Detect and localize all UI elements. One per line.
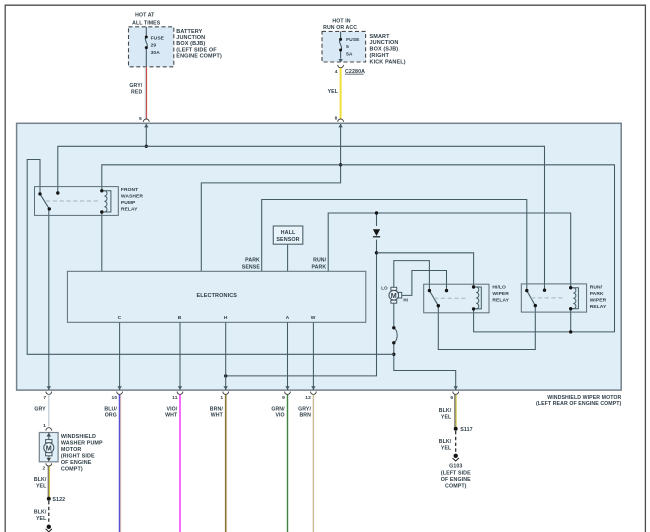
- wire BLU/ORG: [104, 395, 120, 532]
- svg-text:FUSE: FUSE: [346, 37, 360, 43]
- svg-text:A: A: [286, 315, 290, 321]
- svg-text:M: M: [46, 443, 52, 452]
- wire YEL: [328, 68, 341, 119]
- svg-text:YEL: YEL: [328, 89, 339, 95]
- svg-text:BLK/: BLK/: [439, 408, 452, 414]
- node diode bottom junction: [375, 251, 378, 254]
- svg-text:ORG: ORG: [105, 413, 117, 419]
- wire electronics C to pin 10: [119, 322, 121, 390]
- svg-text:VIO: VIO: [275, 413, 284, 419]
- svg-text:C: C: [118, 315, 122, 321]
- node motor common junction: [392, 353, 395, 356]
- svg-text:YEL: YEL: [36, 516, 47, 522]
- svg-text:12: 12: [305, 395, 311, 401]
- svg-text:PARK: PARK: [311, 264, 326, 270]
- wire motor common to pin 6: [394, 303, 456, 390]
- svg-text:RED: RED: [131, 89, 142, 95]
- svg-text:G103: G103: [449, 464, 462, 470]
- connector C2280A pin 4: [335, 59, 365, 75]
- svg-text:RUN/: RUN/: [590, 285, 603, 291]
- wire hall sensor to electronics: [287, 244, 289, 271]
- wire hi/lo relay output to run/park relay output: [438, 306, 535, 350]
- connector pin 5 at wiper motor: [139, 116, 149, 122]
- node YEL junction: [339, 163, 342, 166]
- svg-text:8: 8: [335, 116, 338, 122]
- svg-text:RUN OR ACC: RUN OR ACC: [323, 25, 357, 31]
- wire electronics A to pin 9: [287, 322, 289, 390]
- wire electronics H to pin 1: [225, 322, 227, 390]
- svg-text:FRONT: FRONT: [121, 187, 138, 193]
- svg-text:PARK: PARK: [590, 291, 604, 297]
- wire motor LO brush to hi/lo relay switch: [394, 261, 430, 291]
- svg-text:GRY/: GRY/: [298, 406, 311, 412]
- svg-text:VIO/: VIO/: [167, 406, 178, 412]
- node park switch bottom: [392, 341, 395, 344]
- connector pin 1 at washer pump motor: [43, 423, 52, 430]
- wire GRN/VIO: [271, 395, 287, 532]
- svg-text:(RIGHT SIDE: (RIGHT SIDE: [61, 453, 95, 459]
- connector pin 11 at assembly bottom: [172, 386, 183, 401]
- wire BLK/YEL from washer pump: [34, 466, 50, 498]
- svg-text:HI: HI: [403, 297, 408, 302]
- svg-text:W: W: [311, 315, 316, 321]
- svg-text:GRN/: GRN/: [271, 406, 285, 412]
- svg-text:BLK/: BLK/: [34, 477, 47, 483]
- svg-text:WIPER: WIPER: [590, 298, 607, 304]
- svg-text:1: 1: [43, 423, 46, 429]
- svg-text:BOX (SJB): BOX (SJB): [370, 47, 399, 53]
- ground G103: [441, 454, 471, 490]
- wire washer relay output to pin 7: [48, 209, 50, 390]
- windshield washer pump motor M2: [39, 433, 103, 473]
- wire park sense to run/park relay switch: [262, 200, 527, 291]
- relay: front washer pump relay: [35, 187, 144, 216]
- relay: hi/lo wiper relay: [424, 284, 510, 313]
- wire washer relay common to motor common: [27, 160, 394, 355]
- wire YEL bus to washer relay coil and wiper relay coils: [102, 165, 615, 332]
- svg-text:(LEFT SIDE: (LEFT SIDE: [441, 470, 471, 476]
- svg-text:29: 29: [151, 43, 157, 49]
- svg-text:H: H: [224, 315, 228, 321]
- node B+ junction: [145, 145, 148, 148]
- connector pin 10 at assembly bottom: [112, 386, 123, 401]
- svg-text:HOT AT: HOT AT: [135, 12, 155, 18]
- wire GRY/RED: [129, 67, 146, 119]
- svg-text:S122: S122: [52, 497, 65, 503]
- wire diode junction to hi/lo relay coil: [377, 253, 474, 287]
- svg-text:BATTERY: BATTERY: [176, 29, 202, 35]
- node H terminal junction: [224, 374, 227, 377]
- svg-text:BLU/: BLU/: [104, 406, 117, 412]
- svg-text:WHT: WHT: [211, 413, 224, 419]
- svg-text:PUMP: PUMP: [121, 200, 136, 206]
- svg-text:BRN/: BRN/: [210, 406, 224, 412]
- svg-text:SENSOR: SENSOR: [276, 237, 299, 243]
- svg-text:SMART: SMART: [370, 34, 391, 40]
- node park switch top: [392, 326, 395, 329]
- svg-text:HI/LO: HI/LO: [492, 285, 506, 291]
- wire VIO/WHT: [165, 395, 180, 532]
- connector pin 8 at wiper motor: [335, 116, 344, 122]
- wire from pin 8 to electronics: [201, 124, 340, 271]
- svg-text:SENSE: SENSE: [242, 264, 261, 270]
- svg-text:FUSE: FUSE: [151, 35, 165, 41]
- wire BLK/YEL to ground below S122: [34, 501, 49, 524]
- svg-text:BLK/: BLK/: [34, 510, 47, 516]
- svg-text:4: 4: [335, 69, 338, 75]
- svg-text:7: 7: [43, 395, 46, 401]
- svg-text:ALL TIMES: ALL TIMES: [132, 21, 161, 27]
- svg-text:GRY/: GRY/: [129, 83, 142, 89]
- wiper motor M1: [381, 286, 408, 304]
- svg-text:9: 9: [282, 395, 285, 401]
- connector pin 12 at assembly bottom: [305, 386, 316, 401]
- svg-text:(LEFT SIDE OF: (LEFT SIDE OF: [176, 47, 217, 53]
- svg-text:PARK: PARK: [245, 257, 260, 263]
- svg-text:WASHER: WASHER: [121, 194, 143, 200]
- svg-text:LO: LO: [381, 286, 388, 291]
- svg-text:WHT: WHT: [165, 413, 178, 419]
- svg-text:YEL: YEL: [441, 446, 452, 452]
- svg-text:ELECTRONICS: ELECTRONICS: [197, 293, 238, 299]
- svg-text:WIPER: WIPER: [492, 291, 509, 297]
- svg-text:YEL: YEL: [36, 483, 47, 489]
- ground below S122: [46, 525, 52, 532]
- svg-text:S117: S117: [460, 427, 472, 433]
- electronics module U1: [67, 271, 365, 322]
- svg-text:5: 5: [346, 44, 349, 50]
- connector pin 1 at assembly bottom: [220, 386, 228, 401]
- connector pin 9 at assembly bottom: [282, 386, 290, 401]
- wire diode branch to electronics H terminal: [226, 213, 377, 376]
- svg-text:M: M: [391, 291, 397, 300]
- svg-text:30A: 30A: [151, 50, 161, 56]
- fuse 5 5A: [339, 31, 360, 58]
- svg-text:MOTOR: MOTOR: [61, 447, 81, 453]
- svg-text:(LEFT REAR OF ENGINE COMPT): (LEFT REAR OF ENGINE COMPT): [536, 401, 622, 407]
- node diode top junction: [375, 211, 378, 214]
- wire motor HI brush to hi/lo relay contact: [402, 271, 447, 296]
- svg-text:RELAY: RELAY: [492, 298, 509, 304]
- wire washer relay coil to electronics: [101, 212, 103, 271]
- svg-text:10: 10: [112, 395, 118, 401]
- svg-text:BOX (BJB): BOX (BJB): [176, 41, 205, 47]
- svg-text:RELAY: RELAY: [121, 207, 138, 213]
- wire run/park relay coil to YEL bus: [570, 309, 572, 332]
- splice S117: [454, 427, 473, 433]
- svg-text:RELAY: RELAY: [590, 304, 607, 310]
- svg-text:GRY: GRY: [34, 406, 46, 412]
- splice S122: [47, 497, 65, 503]
- svg-text:BRN: BRN: [299, 413, 311, 419]
- svg-text:1: 1: [220, 395, 223, 401]
- svg-text:HALL: HALL: [281, 230, 296, 236]
- svg-text:WINDSHIELD: WINDSHIELD: [61, 434, 96, 440]
- wire electronics W to pin 12: [312, 322, 314, 390]
- svg-text:OF ENGINE: OF ENGINE: [61, 460, 92, 466]
- svg-text:2: 2: [42, 465, 45, 471]
- wire from pin 5 to B+ bus: [145, 124, 147, 146]
- wire BLK/YEL from pin 6: [439, 395, 456, 429]
- connector pin 6 at assembly bottom: [450, 386, 458, 401]
- svg-text:(RIGHT: (RIGHT: [370, 53, 390, 59]
- connector pin 7 at assembly bottom: [43, 386, 51, 401]
- wire electronics B to pin 11: [179, 322, 181, 390]
- svg-text:6: 6: [450, 395, 453, 401]
- svg-text:KICK PANEL): KICK PANEL): [370, 59, 406, 65]
- connector pin 2 at washer pump motor: [42, 458, 51, 472]
- svg-text:5: 5: [139, 116, 142, 122]
- svg-text:JUNCTION: JUNCTION: [370, 40, 399, 46]
- svg-text:HOT IN: HOT IN: [332, 18, 350, 24]
- wire GRY: [48, 395, 50, 427]
- park switch cam: [394, 328, 397, 343]
- hall sensor: [273, 226, 303, 244]
- svg-text:BLK/: BLK/: [439, 439, 452, 445]
- svg-text:5A: 5A: [346, 51, 353, 57]
- battery junction box (BJB): [129, 12, 222, 67]
- svg-text:RUN/: RUN/: [313, 257, 327, 263]
- wire BLK/YEL to ground G103: [439, 431, 456, 453]
- svg-text:YEL: YEL: [441, 414, 452, 420]
- wire BRN/WHT: [210, 395, 227, 532]
- svg-text:JUNCTION: JUNCTION: [176, 35, 205, 41]
- svg-text:COMPT): COMPT): [445, 484, 467, 490]
- relay: run/park wiper relay: [521, 284, 607, 312]
- diode CR1: [373, 226, 380, 240]
- fuse 29 30A: [145, 27, 165, 67]
- svg-text:B: B: [178, 315, 182, 321]
- svg-text:COMPT): COMPT): [61, 466, 83, 472]
- wire B+ bus to washer relay contact and run/park relay contact: [58, 146, 545, 290]
- wire GRY/BRN: [298, 395, 313, 532]
- svg-text:ENGINE COMPT): ENGINE COMPT): [176, 53, 222, 59]
- windshield wiper motor assembly box: [17, 123, 622, 407]
- svg-text:11: 11: [172, 395, 178, 401]
- svg-text:WASHER PUMP: WASHER PUMP: [61, 440, 103, 446]
- svg-text:OF ENGINE: OF ENGINE: [441, 477, 471, 483]
- node coil bus junction: [569, 330, 572, 333]
- wire run/park terminal to run/park relay coil: [328, 213, 571, 288]
- smart junction box (SJB): [322, 18, 406, 65]
